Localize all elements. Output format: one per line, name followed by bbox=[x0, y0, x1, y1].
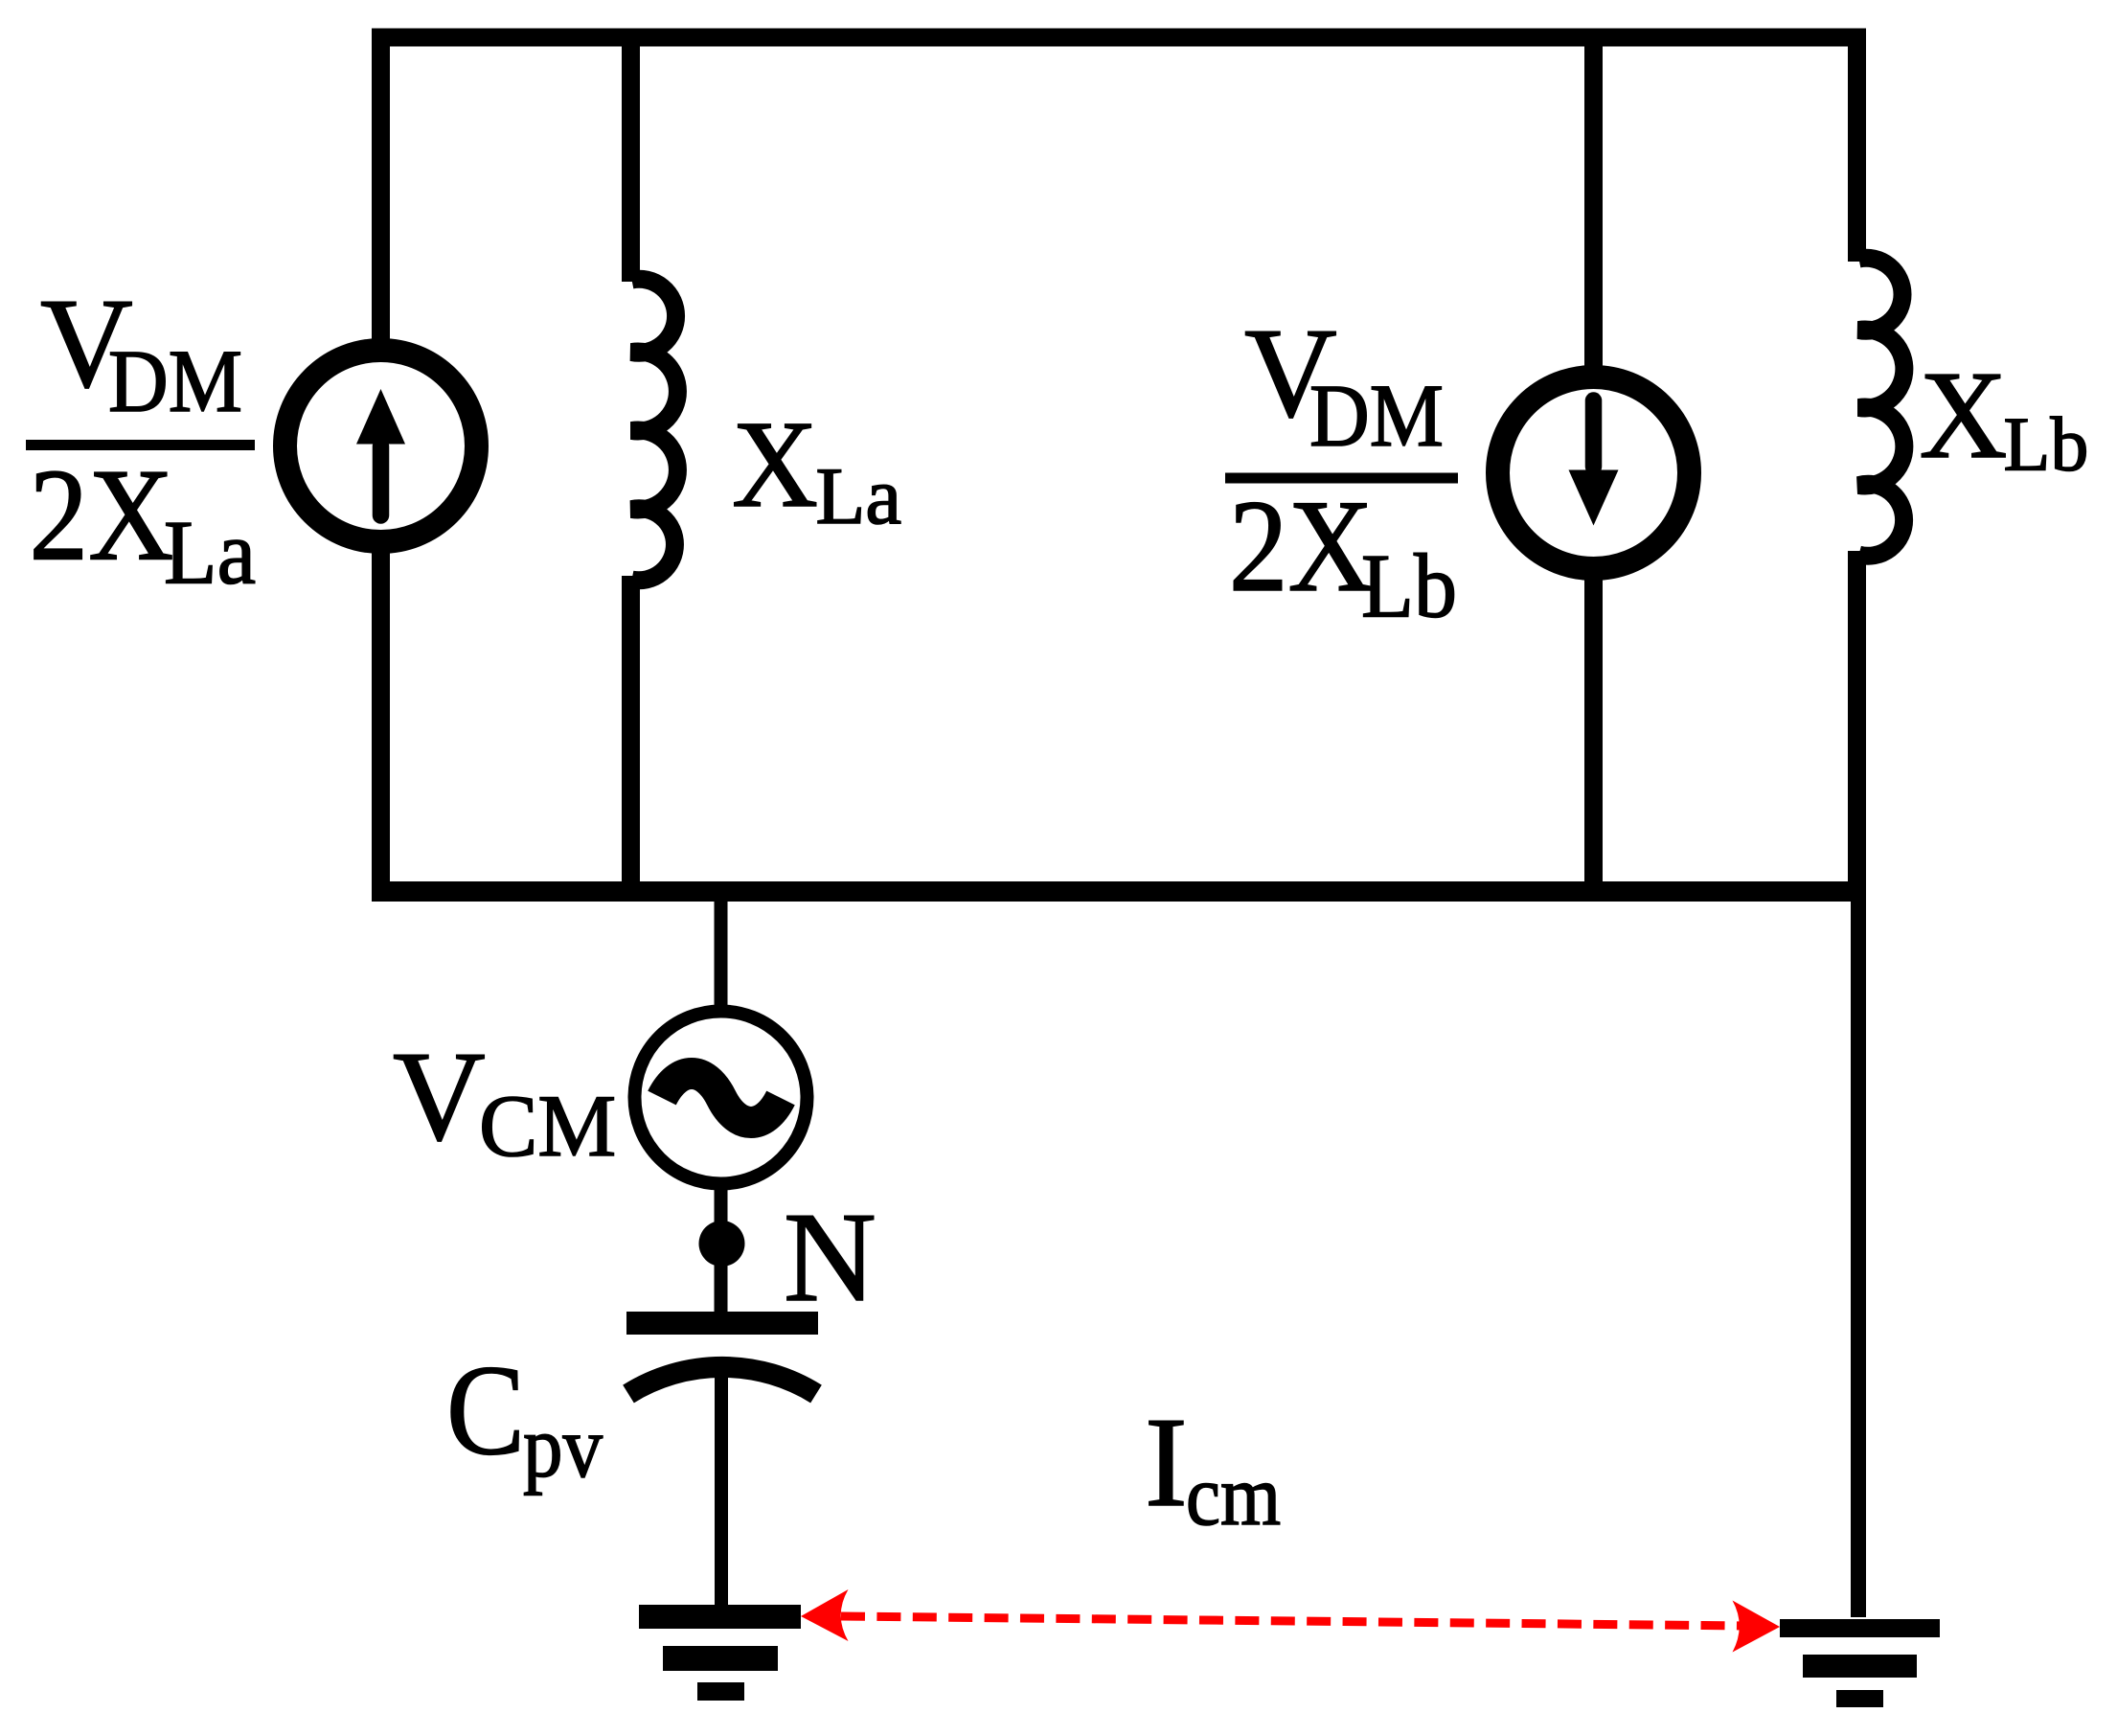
wire left branch lower bbox=[372, 551, 390, 900]
svg-text:2X: 2X bbox=[1229, 472, 1374, 619]
wire top bus bbox=[372, 29, 1866, 47]
inductor XLa coil bbox=[632, 279, 678, 580]
svg-text:La: La bbox=[164, 502, 256, 604]
ground left bar3 bbox=[697, 1682, 744, 1701]
wire right source branch lower bbox=[1584, 578, 1603, 900]
svg-text:CM: CM bbox=[479, 1077, 616, 1175]
inductor XLb coil bbox=[1859, 258, 1904, 556]
current source I2 (VDM/2XLb) circle bbox=[1498, 377, 1690, 569]
svg-text:I: I bbox=[1145, 1391, 1188, 1533]
ground left bar1 bbox=[639, 1605, 801, 1629]
wire right source branch upper bbox=[1584, 29, 1603, 368]
ground right bar2 bbox=[1803, 1655, 1917, 1678]
wire inductor Lb branch upper bbox=[1848, 29, 1866, 262]
label XLb bbox=[1920, 346, 2089, 488]
ground left bar2 bbox=[663, 1646, 778, 1671]
voltage source VCM sine bbox=[662, 1074, 781, 1123]
svg-text:Lb: Lb bbox=[1361, 536, 1457, 637]
svg-text:V: V bbox=[393, 1025, 486, 1167]
wire capacitor to ground bbox=[715, 1372, 728, 1610]
Icm arrowhead left bbox=[801, 1589, 849, 1641]
wire right down to ground bbox=[1851, 896, 1866, 1617]
svg-text:X: X bbox=[732, 396, 818, 534]
ground right bar1 bbox=[1780, 1619, 1940, 1637]
Icm dashed line bbox=[841, 1616, 1745, 1626]
capacitor Cpv top plate bbox=[626, 1312, 818, 1335]
svg-text:C: C bbox=[446, 1339, 525, 1482]
current source I2 arrow (down) bbox=[1569, 400, 1619, 526]
label XLa bbox=[732, 396, 901, 541]
wire inductor La branch lower bbox=[622, 576, 640, 900]
wire inductor Lb branch middle bbox=[1848, 551, 1866, 896]
svg-text:La: La bbox=[816, 451, 902, 541]
voltage source VCM circle bbox=[635, 1012, 808, 1184]
svg-text:DM: DM bbox=[1309, 367, 1444, 466]
label Icm bbox=[1145, 1391, 1281, 1543]
label VDM/2XLb fraction bbox=[1225, 302, 1458, 637]
Icm arrowhead right bbox=[1733, 1601, 1781, 1653]
svg-text:N: N bbox=[784, 1186, 876, 1328]
wire VCM branch top bbox=[715, 899, 728, 1012]
ground right bar3 bbox=[1836, 1690, 1883, 1707]
wire bottom bus bbox=[372, 881, 1866, 902]
label Cpv bbox=[446, 1339, 603, 1496]
capacitor Cpv curved plate bbox=[628, 1367, 816, 1394]
current source I1 (VDM/2XLa) circle bbox=[285, 351, 477, 542]
wire VCM to node N bbox=[715, 1183, 728, 1314]
node N dot bbox=[699, 1221, 745, 1267]
label VDM/2XLa fraction bbox=[26, 272, 256, 604]
svg-text:cm: cm bbox=[1186, 1449, 1281, 1543]
current source I1 arrow (up) bbox=[356, 389, 405, 515]
svg-text:2X: 2X bbox=[29, 442, 173, 588]
svg-text:X: X bbox=[1920, 346, 2008, 485]
svg-text:DM: DM bbox=[108, 332, 242, 431]
label N bbox=[784, 1186, 876, 1328]
svg-text:pv: pv bbox=[523, 1398, 603, 1496]
svg-text:Lb: Lb bbox=[2004, 403, 2089, 488]
label VCM bbox=[393, 1025, 616, 1175]
wire left branch upper bbox=[372, 29, 390, 342]
wire inductor La branch upper bbox=[622, 29, 640, 282]
